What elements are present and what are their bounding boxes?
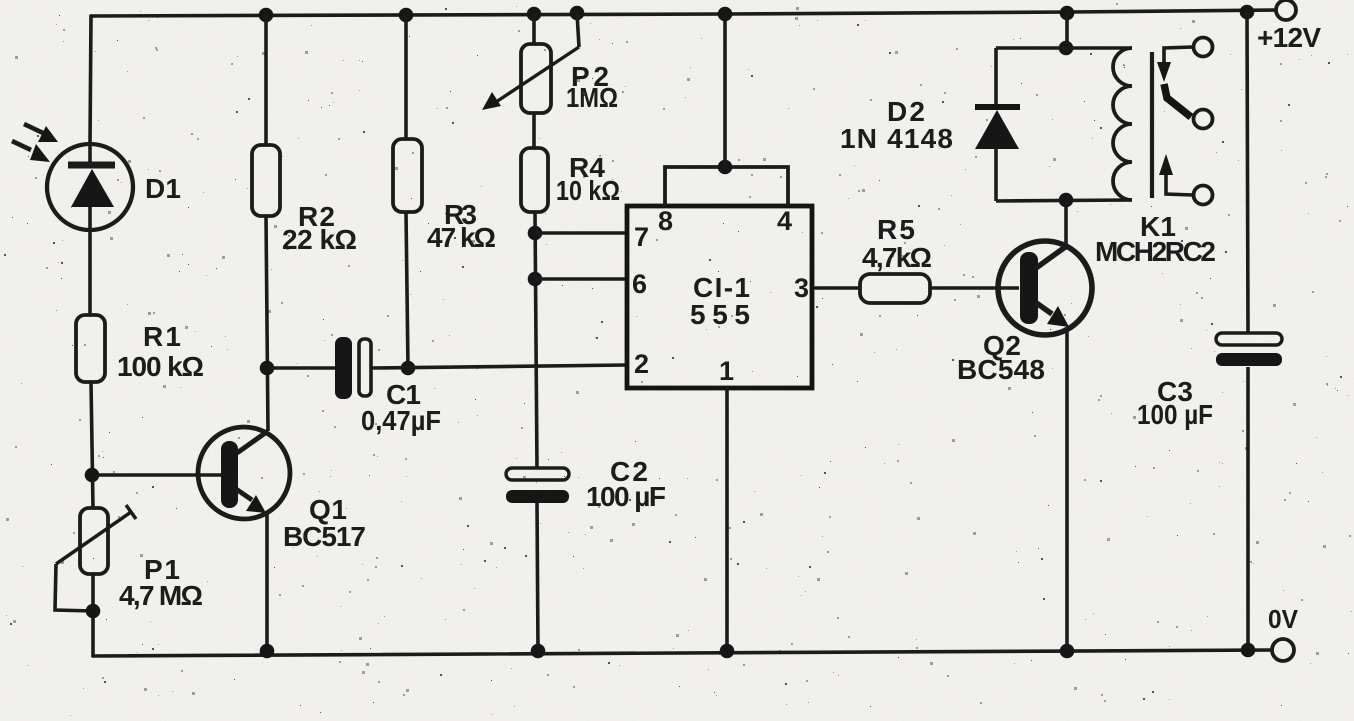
relay K1 contact common terminal — [1194, 38, 1213, 57]
wire: C2 bottom lead — [537, 503, 538, 651]
resistor R5 — [860, 274, 930, 303]
wire: left rail D1 top lead — [90, 16, 91, 145]
svg-text:0V: 0V — [1268, 604, 1299, 634]
capacitor C2 — [506, 468, 569, 503]
node: R3 junction on pin2 wire — [401, 361, 416, 376]
wire: top of D2 branch — [996, 46, 1132, 50]
svg-text:22 kΩ: 22 kΩ — [282, 224, 357, 255]
wire: P2 to R4 — [532, 113, 536, 148]
node: top rail P2 tap — [527, 7, 542, 22]
relay contact arrow down — [1157, 62, 1171, 82]
wire: R3 bottom lead — [406, 212, 408, 368]
svg-text:100 kΩ: 100 kΩ — [117, 351, 204, 382]
wire: C1 to pin 2 of 555 — [372, 365, 627, 368]
node: top rail right tap — [1240, 5, 1255, 20]
wire: Q2 collector up to relay — [1064, 200, 1068, 245]
relay K1 coil — [1113, 48, 1132, 200]
node: D2/coil top junction — [1059, 41, 1074, 56]
svg-text:+12V: +12V — [1257, 22, 1321, 53]
wire: C3 to bottom rail — [1246, 367, 1250, 650]
node: pin 1 at bottom rail — [720, 644, 735, 659]
node: top rail R3 tap — [399, 8, 414, 23]
relay contact arrow up — [1159, 154, 1173, 175]
node: Q1 base junction on left rail — [85, 468, 100, 483]
node: top rail relay tap — [1060, 6, 1075, 21]
node: C3 at bottom rail — [1241, 643, 1256, 658]
wire: P1 to bottom rail — [91, 574, 95, 656]
node: coil bottom junction — [1059, 193, 1074, 208]
svg-text:0,47µF: 0,47µF — [361, 405, 441, 436]
node: top rail R2 tap — [259, 8, 274, 23]
potentiometer P1 — [56, 505, 136, 574]
photodiode D1 — [47, 144, 133, 230]
wire: P2 top lead — [532, 14, 536, 44]
svg-text:4: 4 — [777, 206, 792, 236]
P2 wiper arrowhead — [482, 92, 501, 110]
resistor R2 — [252, 145, 280, 216]
wire: to pin 6 — [535, 277, 627, 281]
relay armature — [1164, 84, 1191, 117]
svg-text:2: 2 — [634, 349, 649, 379]
wire: right rail to C3 — [1247, 12, 1248, 332]
node: bracket middle — [718, 160, 733, 175]
wire: R3 top lead — [404, 15, 408, 139]
D1 light arrow 1 — [24, 124, 58, 142]
node: Q1 emitter at bottom rail — [260, 644, 275, 659]
potentiometer P2 — [496, 44, 579, 113]
wire: bottom 0V rail — [93, 650, 1272, 656]
svg-text:4,7 MΩ: 4,7 MΩ — [119, 580, 203, 611]
resistor R4 — [521, 148, 548, 212]
wire: bracket to top rail — [723, 14, 727, 167]
IC CI-1 555 timer — [627, 206, 812, 388]
svg-text:R5: R5 — [877, 214, 915, 245]
wire: to pin 7 — [535, 231, 627, 235]
D1 light arrow 2 — [12, 141, 50, 162]
wire: top +12V rail — [91, 10, 1276, 16]
wire: R4 bottom lead down to C2 — [535, 212, 537, 469]
svg-text:10 kΩ: 10 kΩ — [556, 175, 620, 206]
wire: P2 wiper to top rail — [577, 13, 579, 47]
wire: C1 left wire — [267, 366, 335, 370]
svg-text:100 µF: 100 µF — [586, 481, 666, 512]
wire: Q1 emitter to bottom rail — [265, 514, 269, 651]
wire: pin 3 to R5 — [812, 286, 860, 290]
svg-text:BC517: BC517 — [283, 521, 366, 552]
svg-text:47 kΩ: 47 kΩ — [427, 222, 496, 253]
wire: bottom of D2 branch — [996, 200, 1132, 201]
transistor Q2 — [998, 241, 1092, 335]
svg-text:7: 7 — [634, 222, 649, 252]
node: C1 left junction — [260, 361, 275, 376]
node: P1 wiper junction — [86, 604, 101, 619]
wire: D1 to R1 — [88, 229, 92, 315]
resistor R1 — [76, 315, 105, 382]
wire: 555 supply bracket pins 8-4 — [665, 167, 788, 206]
svg-text:R1: R1 — [143, 321, 181, 352]
node: pin 6 junction — [528, 272, 543, 287]
node: top rail P2 wiper tap — [570, 6, 585, 21]
wire: R1 to P1 — [91, 382, 93, 508]
relay K1 core — [1150, 52, 1154, 198]
capacitor C1 — [335, 337, 371, 399]
wire: NO contact lead — [1166, 175, 1193, 195]
resistor R3 — [393, 139, 422, 212]
capacitor C3 — [1216, 333, 1282, 366]
svg-text:6: 6 — [632, 269, 647, 299]
transistor Q1 — [198, 427, 290, 519]
relay K1 NO terminal — [1194, 186, 1213, 205]
node: top rail 555 tap — [718, 7, 733, 22]
svg-text:MCH2RC2: MCH2RC2 — [1095, 236, 1216, 267]
wire: R2 top lead — [264, 15, 268, 145]
svg-text:BC548: BC548 — [957, 354, 1045, 385]
terminal +12V — [1276, 0, 1296, 20]
svg-text:1: 1 — [719, 356, 734, 386]
wire: R5 to Q2 base — [930, 286, 1019, 290]
node: Q2 emitter at bottom rail — [1060, 644, 1075, 659]
diode D2 — [975, 48, 1020, 201]
svg-text:4,7kΩ: 4,7kΩ — [862, 242, 932, 273]
wire: Q2 emitter to bottom rail — [1065, 332, 1069, 651]
node: C2 at bottom rail — [531, 644, 546, 659]
svg-text:8: 8 — [658, 206, 673, 236]
wire: top rail to D2/relay branch — [1065, 13, 1069, 48]
relay K1 NC terminal — [1194, 110, 1213, 129]
svg-text:100 µF: 100 µF — [1137, 399, 1213, 430]
svg-text:1MΩ: 1MΩ — [566, 82, 618, 113]
svg-text:3: 3 — [794, 273, 809, 303]
node: pin 7 junction — [528, 226, 543, 241]
terminal 0V — [1272, 639, 1294, 661]
wire: top contact lead — [1164, 47, 1193, 62]
wire: Q1 base wire — [92, 473, 221, 477]
svg-text:555: 555 — [690, 299, 750, 330]
svg-text:D1: D1 — [145, 173, 181, 204]
wire: R2 bottom to Q1 collector — [266, 216, 268, 431]
wire: pin 1 to bottom rail — [725, 388, 729, 651]
wire: P1 wiper to bottom lead — [55, 564, 93, 611]
svg-text:1N 4148: 1N 4148 — [840, 123, 953, 154]
